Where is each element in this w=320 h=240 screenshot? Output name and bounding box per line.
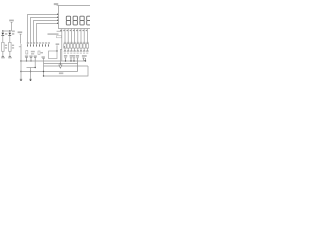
power flag +5V (left) [9,20,14,31]
wire bus H1 [21,60,86,62]
segment resistors R3-R10 [64,29,89,54]
resistor R2 [8,42,14,58]
resistor R10 [86,29,89,54]
digit 8 (3) [80,16,84,25]
net stub d (x=43.5) [42,56,45,63]
node gnd junction [60,63,61,64]
node H6 cross [30,71,31,72]
wire riser c-H5 [34,61,36,68]
ground label [59,72,63,74]
wire bus H6 [20,71,78,73]
MCU pin row pads [27,44,49,46]
wire jog to gnd branch (V1a) [60,50,61,64]
wire speaker leg (x=30.5) [30,68,32,80]
node bus1 left [20,60,21,61]
node H5 [35,67,36,68]
terminal BT+ [29,78,31,80]
capacitor C1 [38,51,43,54]
button S1 stub (x=65.5) [64,55,67,62]
buzzer BZ1 [49,43,60,58]
resistor R4 [67,29,70,54]
wire MCU pin to bottom rails (x=21) [20,44,22,79]
resistor R7 [77,29,80,54]
node H6-riser [43,71,44,72]
terminal BT- [20,78,22,80]
display label text [48,33,59,35]
transistor Q2 [8,31,14,42]
wire riser H6-H7 [43,64,45,77]
transistor Q1 [1,31,7,42]
wire bundle digit1 [28,15,59,44]
node rail-Q1 [2,30,3,31]
net stub b (x=31) [29,55,32,61]
display DSP1 body [54,3,92,28]
stub to H6 (x=77.5) [76,55,79,72]
net label VCC [12,30,15,32]
MCU top pin labels row [27,42,50,43]
resistor bottom ticks [64,50,88,52]
resistor R9 [83,29,86,54]
wire bundle digit2 [31,18,59,44]
net stub c (x=35.2) [34,55,37,61]
resistor R6 [73,29,76,54]
wire bundle digit4 [37,24,59,44]
wire rail 5V [2,30,11,32]
resistor R8 [80,29,83,54]
resistor R3 [64,29,67,54]
node rail-Q2 [9,30,10,31]
ground [59,64,62,69]
digit 8 (2) [73,16,77,25]
display bottom pin numbers [60,30,87,31]
net stub a (x=26.5) [25,55,28,61]
wire bus H7 [44,66,89,76]
wire bundle digit3 [34,21,59,44]
net tick on dp wire [57,30,62,32]
resistor R5 [70,29,73,54]
digit 8 (1) [66,16,70,25]
button S2 stubs (x=71,74) [70,55,76,62]
wire bus H5 [27,67,36,69]
value mark R3 [63,46,65,48]
display left pin numbers [57,14,58,24]
wire bus H4 [44,65,89,67]
node H7 left end [43,75,44,76]
digit 8 (4) [87,16,91,25]
stub pair right (x=83.5,85.5) [82,55,87,62]
wire display dp pin down (V1b) [61,29,63,61]
resistor R1 [1,42,7,58]
power flag +5V (middle) [18,31,23,43]
pin tick [19,46,21,48]
crystal X1 [26,51,35,55]
node bus3 left [20,71,21,72]
wire bus H2 [44,63,78,65]
